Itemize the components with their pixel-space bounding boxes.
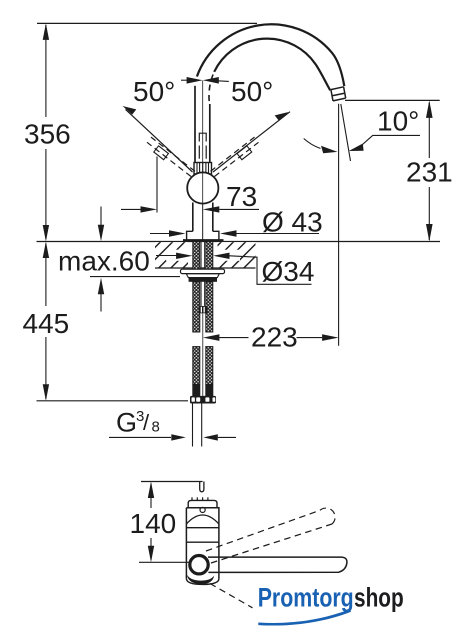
dim 356 vertical line with arrows: [45, 25, 47, 239]
pivot arrows at pipe top: [181, 79, 192, 81]
svg-text:8: 8: [152, 419, 160, 436]
deck top extension line: [37, 241, 441, 243]
left lever tip rectangle: [154, 146, 169, 160]
50° left leader line with arrowhead: [126, 109, 193, 172]
collar (handle base): [194, 163, 212, 175]
body below ball: [192, 203, 194, 232]
bottom view: dark base shading: [187, 575, 214, 585]
bottom view: cap: [188, 500, 217, 507]
centerline through ball redrawn: [202, 173, 204, 241]
bottom view: body outline: [186, 508, 219, 579]
231 top extension line: [345, 99, 440, 101]
dashed lever right (50° position): [211, 137, 259, 176]
svg-text:140: 140: [130, 508, 177, 539]
twin supply lines inside shank: [200, 242, 202, 306]
hose black end section: [192, 385, 200, 397]
50° right leader line with arrowhead: [213, 112, 290, 172]
svg-text:shop: shop: [354, 583, 404, 613]
10° angle arc with arrows: [304, 139, 321, 149]
dashed lever left (50° position): [147, 137, 195, 176]
top extension line (spout apex): [37, 22, 257, 24]
svg-text:50°: 50°: [133, 76, 175, 107]
ball joint: [187, 172, 218, 203]
dim 73: extension line from lever: [156, 157, 158, 213]
bottom view: dashed lowered lever: [210, 584, 253, 608]
centerline below connector: [202, 313, 204, 403]
dim 231 vertical line: [428, 103, 430, 159]
G3/8 connection pipes: [192, 404, 194, 447]
svg-text:223: 223: [251, 322, 298, 353]
svg-text:Ø34: Ø34: [262, 256, 315, 287]
spout outer arc: [197, 24, 344, 86]
bottom view: dashed raised lever: [206, 508, 335, 563]
bottom view: aerator tip: [200, 482, 204, 492]
svg-text:73: 73: [226, 181, 257, 212]
dim Ø34 arrows and leader: [156, 255, 180, 257]
dim 140: [150, 484, 152, 509]
cartridge inside pipe: [199, 133, 206, 141]
140 bottom extension line: [139, 561, 190, 563]
svg-text:356: 356: [24, 119, 71, 150]
svg-text:10°: 10°: [377, 106, 419, 137]
flexible hoses lower section (stippled): [193, 347, 200, 385]
spout inner arc dashed (hidden): [209, 72, 214, 101]
flexible hoses upper section (stippled): [193, 282, 200, 332]
centerline through pipe and ball: [202, 81, 204, 241]
223/10° vertical extension line: [338, 104, 340, 346]
bottom view: cap ticks: [192, 497, 208, 500]
bottom view: lever joint circle: [190, 556, 208, 574]
dim 445 vertical line with arrows: [45, 244, 47, 400]
svg-text:231: 231: [406, 157, 453, 188]
riser pipe edges: [194, 86, 196, 163]
dim G3/8: [109, 436, 171, 438]
deck bottom line: [155, 267, 256, 269]
10° tilted line: [341, 104, 351, 161]
mounting nut: [186, 274, 219, 278]
logo swoosh: [258, 609, 351, 625]
svg-text:/: /: [143, 410, 150, 435]
threaded shank through deck (stippled): [193, 242, 200, 270]
dim Ø43 arrows: [150, 233, 170, 235]
dim 73 arrows: [121, 208, 142, 210]
right lever tip rectangle: [237, 146, 252, 160]
bottom view: handle: [208, 557, 347, 572]
svg-text:445: 445: [23, 308, 70, 339]
washer under deck: [181, 269, 225, 273]
base flange: [187, 231, 219, 240]
dim 223: [203, 334, 220, 341]
svg-text:max.60: max.60: [58, 246, 150, 277]
deck hatched block: [155, 242, 256, 268]
svg-text:G: G: [116, 408, 137, 438]
bottom view: top extension line: [141, 481, 203, 483]
max.60 arrows: [100, 207, 102, 227]
hose end fitting: [190, 396, 216, 404]
bottom view: screw: [200, 507, 205, 512]
svg-text:Ø 43: Ø 43: [262, 207, 323, 238]
aerator outlet piece: [331, 87, 346, 101]
svg-text:Promtorg: Promtorg: [258, 583, 354, 613]
bottom view: dome arc: [186, 515, 219, 524]
445 bottom extension line: [37, 400, 189, 402]
svg-text:50°: 50°: [231, 76, 273, 107]
connector block: [199, 306, 208, 313]
max.60 lower extension line: [90, 276, 180, 278]
spout inner arc solid: [214, 39, 330, 91]
